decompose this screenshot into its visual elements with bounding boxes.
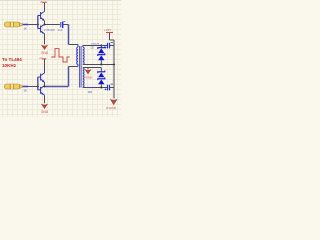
capacitor C1 (inline coupling) — [61, 22, 66, 29]
diode D1 — [98, 46, 105, 54]
connector J1 (top input plug) — [4, 22, 22, 27]
wire secondary top to rectifier — [83, 45, 107, 47]
Q1 emitter arrow — [42, 18, 45, 21]
grid — [0, 0, 121, 117]
capacitor C2 (top right) — [105, 42, 113, 48]
wire secondary bottom to rectifier bottom — [83, 87, 102, 89]
net label on bottom wire — [88, 87, 96, 89]
wire secondary tap1 to diode mid — [83, 64, 114, 66]
Q4 emitter arrow (on lower diagonal, points to bar) — [41, 93, 43, 95]
sheet background — [0, 0, 121, 117]
diode D2 — [98, 53, 105, 64]
svg-text:1N4148: 1N4148 — [91, 43, 99, 45]
capacitor C3 (bottom right) — [105, 84, 113, 90]
wire stage2 output to transformer — [45, 86, 69, 88]
transistor Q3 (NPN upper, stage2) — [38, 73, 45, 82]
junction node stage1 output — [43, 23, 45, 25]
wire J2 to base node — [23, 86, 29, 88]
power port VCC2 (mid, stage 2) — [39, 58, 46, 73]
Q2 emitter arrow (on lower diagonal, points to bar) — [41, 32, 43, 34]
svg-text:1K: 1K — [24, 26, 27, 30]
wire Q4 collector down — [44, 95, 46, 103]
wire C2 to rail — [110, 45, 114, 47]
transformer T1 primary coil — [77, 45, 78, 67]
junction diode top — [100, 44, 102, 46]
top window edge — [0, 0, 121, 1]
ground arrow GND2 (stage2) — [41, 104, 49, 114]
svg-text:GND: GND — [41, 51, 49, 55]
wire C1 to corner, down to transformer — [63, 24, 69, 26]
base link wire (stage1) — [37, 16, 39, 29]
svg-text:1K: 1K — [24, 88, 27, 92]
transistor Q4 (PNP lower, stage2) — [38, 86, 45, 96]
transformer T1 secondary winding 2 — [83, 68, 84, 88]
right rail wire — [113, 40, 115, 99]
ground arrow GND3 (transformer tap) — [84, 68, 92, 80]
wire secondary tap2 — [83, 67, 102, 69]
transistor Q2 (PNP lower, stage1) — [38, 24, 45, 34]
svg-text:To TL494: To TL494 — [2, 57, 22, 62]
diode D4 — [98, 78, 105, 88]
wire stage1 output — [45, 24, 60, 26]
wire Q2 collector down — [44, 34, 46, 45]
svg-text:PGND: PGND — [84, 75, 92, 79]
transistor Q1 (NPN upper, stage1) — [38, 12, 45, 21]
svg-text:1K8: 1K8 — [88, 91, 93, 94]
base link wire (stage2) — [37, 77, 39, 90]
ground arrow PGND (bottom right) — [106, 99, 117, 110]
svg-text:+15V: +15V — [104, 28, 111, 32]
svg-text:GND: GND — [41, 110, 49, 114]
svg-text:PGND: PGND — [106, 106, 116, 110]
Q3 emitter arrow — [42, 80, 45, 83]
transformer core — [80, 46, 82, 88]
junction rail mid — [113, 63, 115, 65]
wire C3 to rail — [110, 87, 114, 89]
junction diode bottom — [100, 86, 102, 88]
wire J1 to base node — [23, 24, 29, 26]
wire Q1 emitter to output node — [44, 21, 46, 25]
transformer T1 secondary winding 1 — [83, 46, 84, 65]
power port VCC1 (top, stage 1) — [40, 2, 47, 12]
diode D3 — [98, 68, 105, 78]
svg-text:1uF: 1uF — [58, 28, 63, 32]
junction diode mid — [100, 63, 102, 65]
junction node stage2 input — [37, 85, 39, 87]
junction node stage1 input — [37, 23, 39, 25]
ground arrow GND1 (stage1) — [41, 45, 49, 55]
svg-text:10KHz: 10KHz — [2, 63, 17, 68]
svg-text:2.2K/1W: 2.2K/1W — [44, 28, 55, 32]
wire Q3 emitter to output node — [44, 82, 46, 86]
power port +15V (top right) — [104, 28, 114, 40]
annotation square wave — [51, 49, 70, 62]
connector J2 (bottom input plug) — [4, 84, 22, 89]
